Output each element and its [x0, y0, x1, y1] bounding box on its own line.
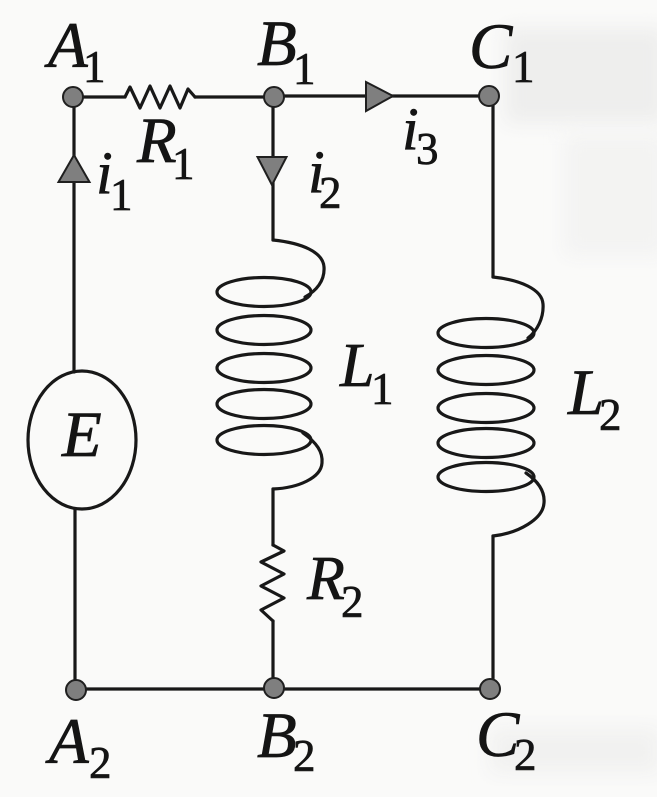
node C1: [479, 86, 499, 106]
wire middle branch upper: [271, 97, 274, 240]
inductor L1 loop 5: [217, 426, 311, 455]
node A1: [63, 87, 83, 107]
wire L2 to C2: [491, 536, 494, 689]
inductor L2 lead-in: [493, 277, 543, 338]
inductor L2 lead-out: [493, 473, 544, 536]
svg-text:2: 2: [293, 731, 316, 781]
wire R1 to B1: [195, 95, 274, 98]
label C2: [476, 699, 537, 780]
inductor L2 loop 5: [438, 463, 534, 492]
label i2: [308, 139, 342, 218]
scan smudge bottom-strip: [490, 728, 657, 773]
svg-text:R: R: [136, 105, 177, 177]
label B1: [257, 8, 316, 94]
node B1: [264, 87, 284, 107]
scan smudge top-right: [505, 28, 657, 123]
svg-text:2: 2: [514, 730, 537, 780]
svg-text:B: B: [257, 8, 297, 80]
source E ellipse: [28, 371, 136, 509]
label L2: [567, 357, 622, 440]
resistor R1: [125, 86, 195, 108]
label R2: [306, 545, 364, 627]
node A2: [66, 680, 86, 700]
label R1: [136, 105, 195, 189]
svg-text:A: A: [44, 10, 88, 82]
svg-text:2: 2: [319, 168, 342, 218]
node C2: [480, 679, 500, 699]
resistor R2: [261, 545, 284, 621]
svg-text:R: R: [306, 545, 345, 613]
wire L1 to R2: [271, 489, 274, 545]
label A2: [45, 706, 112, 788]
inductor L1 loop 2: [217, 316, 311, 345]
svg-text:2: 2: [341, 577, 364, 627]
inductor L2 loop 4: [438, 429, 534, 458]
label C1: [469, 11, 535, 92]
svg-text:E: E: [61, 399, 102, 471]
inductor L2 loop 1: [438, 319, 534, 348]
svg-text:2: 2: [89, 738, 112, 788]
svg-text:3: 3: [416, 124, 439, 174]
svg-text:A: A: [45, 706, 89, 778]
wire B1 to C1: [274, 94, 489, 97]
label L1: [339, 332, 394, 414]
label i1: [96, 140, 133, 220]
inductor L1 lead-in: [273, 240, 324, 297]
svg-text:1: 1: [83, 42, 106, 92]
inductor L1 loop 4: [217, 390, 311, 419]
wire left branch upper: [72, 97, 75, 372]
svg-text:1: 1: [512, 42, 535, 92]
svg-text:L: L: [339, 332, 374, 400]
svg-text:B: B: [257, 700, 297, 772]
svg-text:1: 1: [371, 364, 394, 414]
wire bottom A2 to C2: [74, 687, 490, 690]
wire R2 to B2: [271, 621, 274, 689]
svg-text:2: 2: [599, 390, 622, 440]
label B2: [257, 700, 316, 781]
inductor L1 lead-out: [273, 433, 322, 489]
wire top A1 to R1: [73, 95, 125, 98]
arrow i3 right: [366, 82, 393, 111]
inductor L2 loop 3: [438, 394, 534, 423]
inductor L1 loop 1: [217, 278, 311, 307]
scan smudge right-mid: [565, 135, 657, 255]
inductor L1 loop 3: [217, 354, 311, 383]
label i3: [402, 96, 439, 174]
node B2: [264, 678, 284, 698]
inductor L2 loop 2: [438, 356, 534, 385]
label A1: [44, 10, 106, 92]
svg-text:1: 1: [293, 44, 316, 94]
arrow i1 up: [59, 155, 90, 182]
wire left branch lower: [73, 509, 76, 690]
svg-text:C: C: [469, 11, 513, 83]
svg-text:1: 1: [172, 139, 195, 189]
arrow i2 down: [258, 157, 287, 185]
wire right branch upper: [491, 96, 494, 277]
svg-text:1: 1: [110, 170, 133, 220]
